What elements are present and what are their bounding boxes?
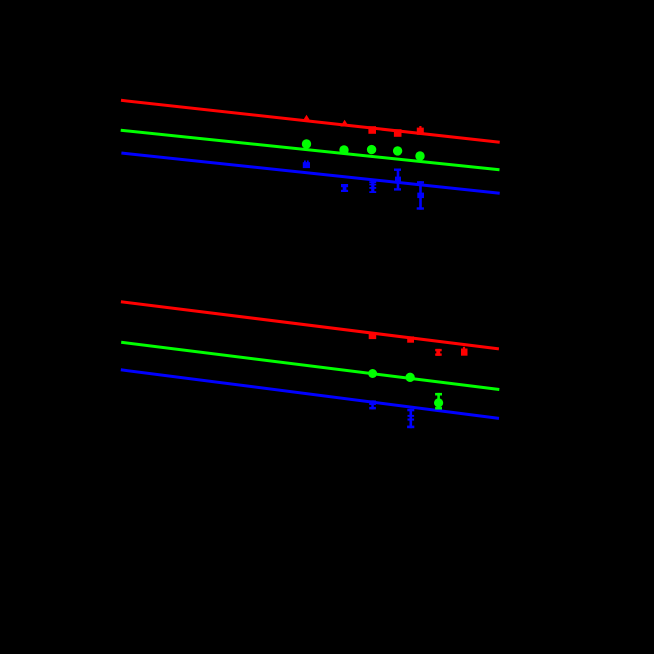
bottom panel green errorbar circle point 3 [434, 393, 443, 410]
top panel blue errorbar point 5 [417, 181, 424, 210]
bottom panel blue square point 1 with errorbar [369, 400, 376, 409]
bottom panel blue fit line [121, 370, 499, 419]
top panel red triangle point 2 [340, 120, 348, 127]
bottom panel red square point 2 [407, 336, 414, 342]
top panel blue errorbar point 4 [394, 169, 401, 191]
top panel green fit line [121, 130, 500, 170]
top panel red square point 4 [394, 129, 402, 137]
bottom panel red errorbar point 3 [435, 349, 442, 356]
top panel blue errorbar point 3 [369, 181, 376, 193]
top panel green circle point 3 [367, 145, 376, 154]
top panel red fit line [121, 100, 500, 142]
bottom panel red square point 1 [369, 332, 377, 339]
top panel green circle point 5 [415, 151, 424, 160]
bottom panel green circle point 2 [405, 373, 414, 382]
bottom panel green fit line [121, 342, 499, 389]
top panel green circle point 4 [393, 146, 402, 155]
top panel blue fit line [121, 153, 499, 193]
top panel blue square point 1 with caps [303, 161, 310, 169]
bottom panel blue errorbar point 2 [407, 409, 414, 428]
top panel blue errorbar point 2 [341, 184, 348, 192]
top panel red square point 3 [368, 126, 376, 134]
top panel green circle point 1 [302, 139, 311, 148]
bottom panel red fit line [121, 302, 499, 349]
bottom panel red square point 4 with cap [461, 347, 468, 356]
top panel red square point 5 with cap [417, 126, 424, 135]
bottom panel green circle point 1 [368, 369, 377, 378]
top panel green circle point 2 [339, 145, 348, 154]
top panel red triangle point 1 [302, 115, 310, 122]
